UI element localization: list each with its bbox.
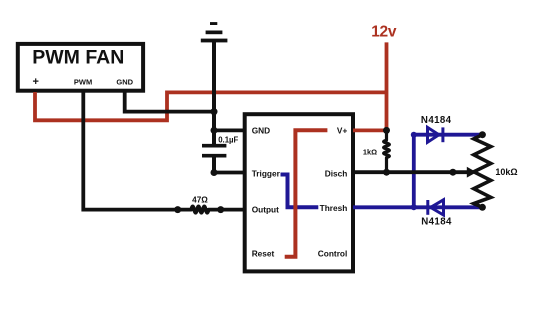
svg-text:Trigger: Trigger: [252, 168, 281, 178]
svg-text:Output: Output: [252, 205, 279, 215]
svg-text:Reset: Reset: [252, 249, 275, 259]
svg-text:1kΩ: 1kΩ: [363, 147, 377, 156]
junction blue dot Thresh node: [411, 204, 417, 210]
junction dot output resistor right: [217, 206, 224, 213]
wire blue internal Trigger-to-Thresh jumper: [281, 175, 319, 208]
svg-text:Disch: Disch: [325, 168, 348, 178]
svg-text:Control: Control: [318, 249, 348, 259]
svg-text:PWM FAN: PWM FAN: [32, 46, 124, 68]
potentiometer R3 10k zigzag: [474, 135, 491, 208]
wire Disch pin line with wiper arrow: [353, 170, 469, 174]
svg-text:Thresh: Thresh: [320, 203, 348, 213]
diode D1 N4184 (pointing right): [428, 127, 443, 142]
svg-text:N4184: N4184: [421, 115, 452, 126]
resistor R1 47 ohm squiggle: [178, 206, 221, 212]
wire fan PWM down to output line: [83, 92, 177, 210]
op IC U1 555 timer box: [245, 114, 353, 271]
junction dot pot bottom: [479, 204, 486, 211]
wire red V+ pin to supply node: [353, 128, 387, 132]
svg-text:PWM: PWM: [74, 77, 92, 86]
arrow head to pot wiper: [467, 167, 477, 178]
junction dot pot top: [479, 131, 486, 138]
wire cap bottom to Trigger node: [212, 156, 216, 173]
wire red internal V+-to-Reset jumper: [285, 130, 328, 257]
junction dot output resistor left: [174, 206, 181, 213]
junction dot wiper line: [449, 169, 456, 176]
junction dot Trigger node: [211, 169, 218, 176]
junction blue dot diode loop top: [411, 132, 417, 138]
ground symbol: [201, 22, 228, 42]
junction dot Disch / 1k node: [383, 169, 390, 176]
junction dot GND pin node: [211, 127, 218, 134]
fan connector J1 "PWM FAN" box: [18, 44, 143, 91]
wire red fan + to 12v rail: [35, 92, 387, 120]
svg-text:GND: GND: [252, 125, 270, 135]
wire ground stem down to GND node: [212, 42, 216, 146]
svg-text:N4184: N4184: [421, 217, 452, 228]
svg-text:12v: 12v: [371, 24, 397, 41]
wire blue top diode line: [414, 133, 483, 137]
wire resistor to U1 Output pin: [221, 208, 245, 212]
svg-text:47Ω: 47Ω: [192, 196, 208, 205]
svg-text:V+: V+: [337, 125, 348, 135]
wire Trigger node to U1 Trigger pin: [214, 171, 245, 175]
wire blue Thresh pin line: [353, 205, 482, 209]
capacitor C1 0.1uF plates: [202, 146, 226, 156]
diode D2 N4184 (pointing left): [428, 200, 444, 215]
svg-text:10kΩ: 10kΩ: [495, 167, 517, 177]
svg-text:0.1µF: 0.1µF: [218, 135, 238, 144]
junction dot fan-GND / ground bus: [211, 108, 218, 115]
wire GND node to U1 GND pin: [214, 128, 245, 132]
wire fan GND to ground bus: [125, 92, 214, 112]
wire blue diode loop vertical: [412, 135, 416, 208]
resistor R2 1k ohm zigzag: [384, 130, 390, 172]
svg-text:+: +: [32, 76, 38, 88]
junction dot V+ supply node: [383, 127, 390, 134]
wire red 12v supply drop: [385, 42, 389, 130]
svg-text:GND: GND: [116, 77, 133, 86]
